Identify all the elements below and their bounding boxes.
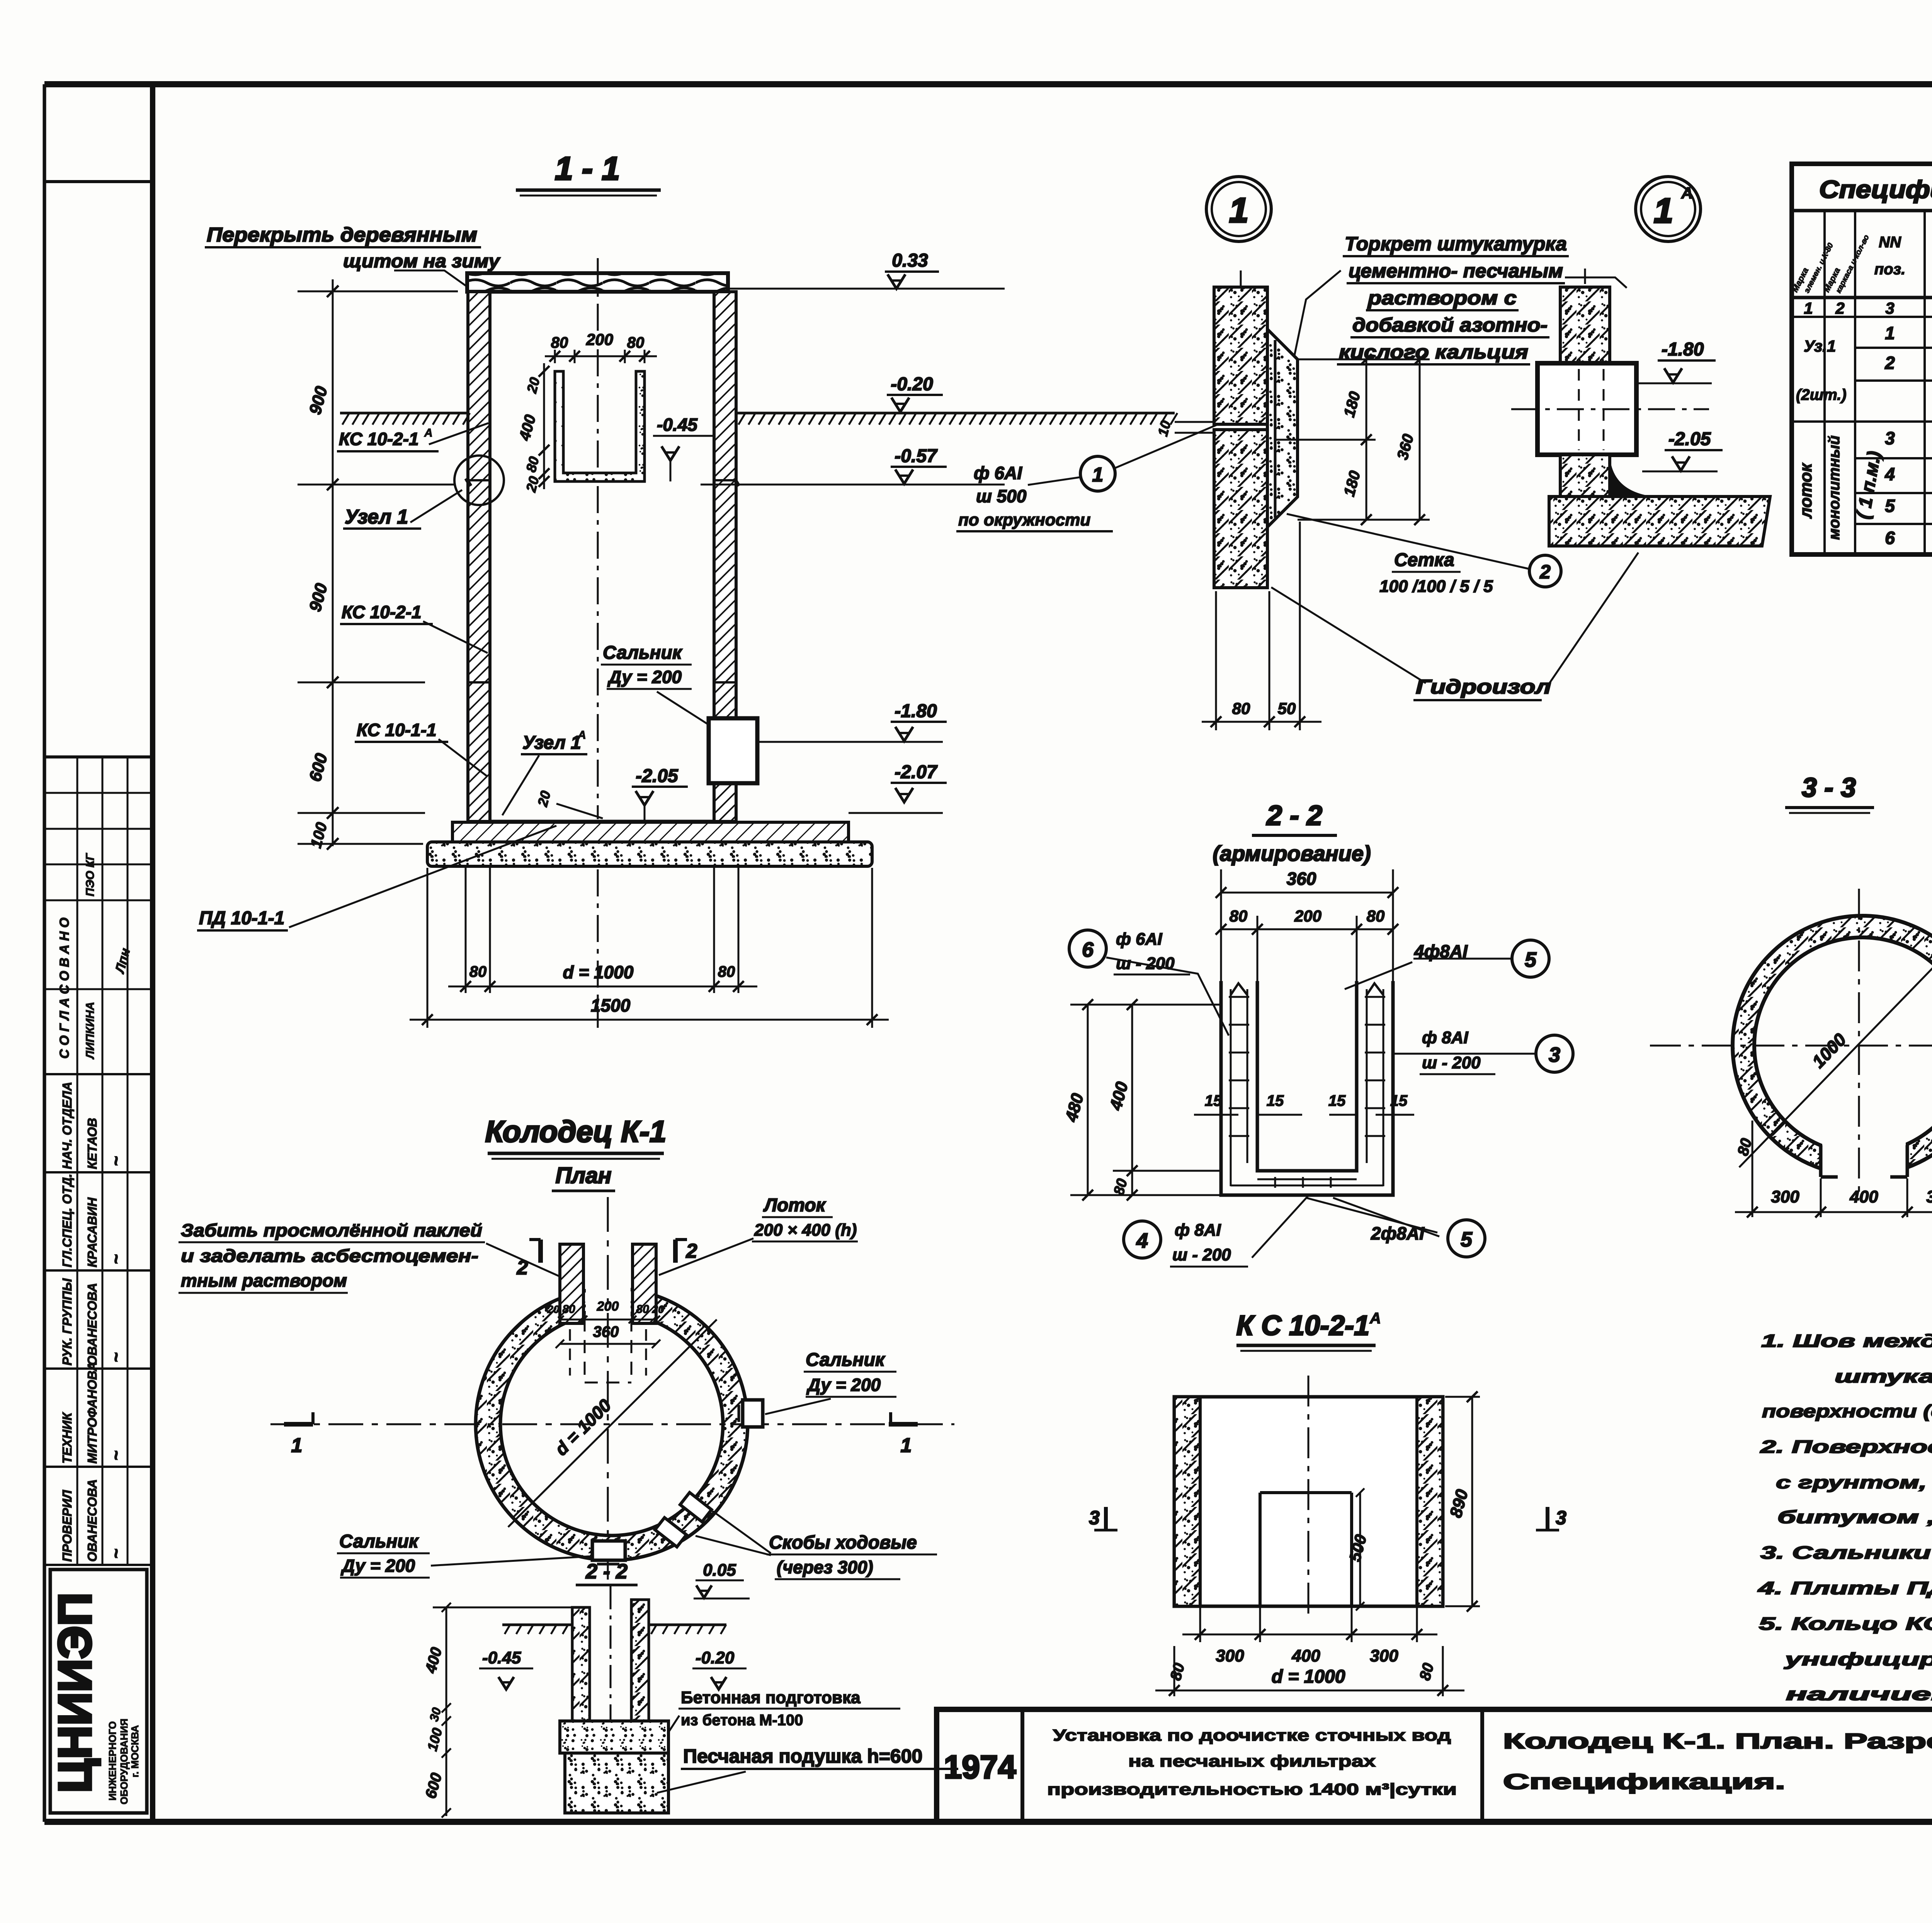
svg-text:80: 80 xyxy=(636,1303,649,1316)
svg-text:Песчаная подушка h=600: Песчаная подушка h=600 xyxy=(683,1745,922,1767)
svg-text:на песчаных фильтрах: на песчаных фильтрах xyxy=(1128,1752,1376,1770)
svg-text:А: А xyxy=(1369,1310,1381,1327)
svg-text:15: 15 xyxy=(1390,1092,1408,1109)
svg-text:5: 5 xyxy=(1525,948,1537,971)
svg-text:ЦНИИЭП: ЦНИИЭП xyxy=(49,1593,101,1793)
border frame xyxy=(43,84,46,1822)
node1 dims 180 180 360 xyxy=(1298,359,1430,361)
channel walls plan xyxy=(560,1244,583,1323)
svg-text:Сальник: Сальник xyxy=(339,1531,419,1552)
bottom slab (hatched) xyxy=(452,822,849,842)
center line xyxy=(597,258,599,819)
svg-text:2: 2 xyxy=(1884,353,1895,373)
svg-text:~: ~ xyxy=(107,1156,126,1166)
svg-text:ф 6АI: ф 6АI xyxy=(1116,930,1162,949)
svg-text:200 × 400 (h): 200 × 400 (h) xyxy=(754,1221,857,1240)
svg-text:Уз.1: Уз.1 xyxy=(1804,337,1836,355)
svg-text:щитом на зиму: щитом на зиму xyxy=(343,251,500,272)
node 1 big circle xyxy=(1206,177,1271,241)
trough (lotok) in section xyxy=(555,371,645,481)
svg-text:-2.07: -2.07 xyxy=(895,762,938,782)
svg-text:Перекрыть деревянным: Перекрыть деревянным xyxy=(207,224,477,246)
svg-text:ф 6АI: ф 6АI xyxy=(974,463,1022,483)
concrete prep pad xyxy=(427,842,872,866)
left dimension chain 900/900/600/100 xyxy=(332,279,334,846)
svg-text:А: А xyxy=(577,729,586,741)
svg-text:3: 3 xyxy=(1089,1507,1100,1529)
svg-text:400: 400 xyxy=(1849,1187,1878,1206)
ring annulus xyxy=(1733,916,1932,1175)
svg-text:-2.05: -2.05 xyxy=(636,766,679,786)
svg-text:1: 1 xyxy=(1885,323,1895,343)
svg-text:200: 200 xyxy=(586,330,613,349)
svg-text:Сетка: Сетка xyxy=(1394,550,1454,570)
svg-text:и заделать асбестоцемен-: и заделать асбестоцемен- xyxy=(181,1246,478,1266)
svg-text:Установка по доочистке сточных: Установка по доочистке сточных вод xyxy=(1053,1726,1451,1744)
svg-text:1: 1 xyxy=(1229,191,1248,230)
svg-text:битумом , разведенным в б: битумом , разведенным в бензине. xyxy=(1777,1507,1932,1527)
svg-text:Сальник: Сальник xyxy=(603,643,683,663)
svg-text:2: 2 xyxy=(686,1240,697,1262)
svg-text:3: 3 xyxy=(1556,1507,1566,1529)
svg-text:1: 1 xyxy=(1804,299,1813,317)
svg-text:3: 3 xyxy=(1549,1043,1560,1066)
svg-text:К С 10-2-1: К С 10-2-1 xyxy=(1236,1310,1369,1341)
salnik box bottom xyxy=(592,1541,625,1560)
svg-text:Торкрет штукатурка: Торкрет штукатурка xyxy=(1345,233,1567,255)
svg-text:ПРОВЕРИЛ: ПРОВЕРИЛ xyxy=(60,1490,74,1562)
svg-text:50: 50 xyxy=(1278,699,1296,718)
svg-text:Колодец К-1: Колодец К-1 xyxy=(485,1114,667,1148)
svg-text:-0.57: -0.57 xyxy=(895,446,938,466)
plaster patch xyxy=(1267,329,1298,527)
dim d=1000 bottom xyxy=(465,868,467,993)
svg-text:ш - 200: ш - 200 xyxy=(1172,1245,1231,1264)
salnik box on right wall xyxy=(709,718,757,783)
section mark 1 left xyxy=(284,1422,313,1427)
floor line inside xyxy=(490,820,714,823)
left dims 480 400 80 xyxy=(1087,1005,1089,1195)
svg-text:1: 1 xyxy=(901,1434,912,1457)
section mark 3 left xyxy=(1104,1507,1108,1530)
svg-text:300: 300 xyxy=(1926,1187,1932,1206)
svg-text:Спецификация.: Спецификация. xyxy=(1503,1769,1785,1794)
notch cut xyxy=(1822,1113,1906,1202)
svg-text:штукатурится по металлическо: штукатурится по металлической сетке с за… xyxy=(1835,1366,1932,1386)
dim 500 xyxy=(1359,1493,1361,1606)
opening lines xyxy=(1259,1493,1262,1606)
svg-text:80: 80 xyxy=(469,963,487,980)
svg-text:1 - 1: 1 - 1 xyxy=(555,150,620,187)
svg-text:2: 2 xyxy=(1539,561,1551,583)
circled 4 xyxy=(1124,1221,1161,1258)
signature table xyxy=(44,1073,153,1075)
svg-text:-0.20: -0.20 xyxy=(891,374,933,395)
bottom dims 300 400 300 xyxy=(1752,1121,1753,1217)
svg-text:200: 200 xyxy=(1294,907,1321,925)
node1 wall strip xyxy=(1214,287,1267,424)
svg-text:15: 15 xyxy=(1328,1092,1346,1109)
svg-text:НАЧ. ОТДЕЛА: НАЧ. ОТДЕЛА xyxy=(60,1082,74,1169)
svg-text:200: 200 xyxy=(597,1299,619,1314)
svg-text:Узел 1: Узел 1 xyxy=(522,733,581,753)
svg-text:КЕТАОВ: КЕТАОВ xyxy=(85,1118,99,1169)
svg-text:d = 1000: d = 1000 xyxy=(563,962,634,982)
diagonal d line xyxy=(1739,927,1932,1167)
circled 6 xyxy=(1069,930,1106,967)
plan centerlines xyxy=(270,1423,954,1425)
svg-text:ф 8АI: ф 8АI xyxy=(1422,1028,1468,1047)
svg-text:по окружности: по окружности xyxy=(958,510,1090,529)
dim d=1000 elevation xyxy=(1173,1646,1175,1696)
svg-text:-0.45: -0.45 xyxy=(657,415,698,435)
dim 1500 bottom xyxy=(427,868,429,1028)
svg-text:ЛИПКИНА: ЛИПКИНА xyxy=(84,1002,97,1059)
svg-text:300: 300 xyxy=(1370,1646,1398,1665)
svg-text:3: 3 xyxy=(1885,299,1894,317)
svg-text:5: 5 xyxy=(1885,496,1895,516)
left stamp strip xyxy=(44,180,153,183)
svg-text:20: 20 xyxy=(547,1303,560,1315)
svg-text:80: 80 xyxy=(627,334,645,351)
svg-text:Сальник: Сальник xyxy=(806,1350,886,1370)
svg-text:(через 300): (через 300) xyxy=(777,1557,873,1577)
svg-text:d = 1000: d = 1000 xyxy=(1272,1667,1345,1687)
svg-text:МИТРОФАНОВА: МИТРОФАНОВА xyxy=(85,1362,99,1464)
svg-text:План: План xyxy=(555,1163,611,1188)
svg-text:ПД 10-1-1: ПД 10-1-1 xyxy=(199,908,284,928)
svg-text:Гидроизол: Гидроизол xyxy=(1416,676,1551,698)
svg-text:1: 1 xyxy=(1092,464,1104,486)
svg-text:1: 1 xyxy=(291,1434,303,1457)
svg-text:Забить просмолённой паклей: Забить просмолённой паклей xyxy=(181,1220,482,1240)
svg-text:20: 20 xyxy=(651,1303,664,1315)
svg-text:80: 80 xyxy=(551,334,568,351)
svg-text:2 - 2: 2 - 2 xyxy=(585,1560,628,1583)
uzel 1 circle xyxy=(454,456,504,505)
svg-text:КС 10-2-1: КС 10-2-1 xyxy=(339,429,419,449)
svg-text:(2шт.): (2шт.) xyxy=(1796,386,1847,403)
svg-text:-1.80: -1.80 xyxy=(895,701,937,721)
wood lid slab xyxy=(467,273,728,292)
trench walls xyxy=(572,1607,590,1721)
svg-text:4: 4 xyxy=(1136,1229,1148,1252)
section mark 3 right xyxy=(1546,1507,1549,1530)
svg-text:ОВАНЕСОВА: ОВАНЕСОВА xyxy=(85,1283,99,1366)
svg-text:ш - 200: ш - 200 xyxy=(1422,1053,1481,1072)
svg-text:РУК. ГРУППЫ: РУК. ГРУППЫ xyxy=(60,1278,74,1366)
title block xyxy=(937,1709,1932,1822)
node1A centerline xyxy=(1511,408,1709,410)
svg-text:цементно- песчаным: цементно- песчаным xyxy=(1349,260,1563,282)
svg-text:поз.: поз. xyxy=(1874,261,1905,278)
svg-text:80: 80 xyxy=(1230,907,1248,925)
ground left/right of trench xyxy=(502,1624,572,1626)
svg-text:300: 300 xyxy=(1216,1646,1244,1665)
svg-text:Лоток: Лоток xyxy=(763,1195,827,1216)
svg-text:из бетона М-100: из бетона М-100 xyxy=(681,1712,803,1729)
svg-text:КС 10-2-1: КС 10-2-1 xyxy=(342,602,422,622)
svg-text:NN: NN xyxy=(1879,234,1901,251)
ground line left xyxy=(340,412,468,415)
svg-text:А: А xyxy=(424,427,433,439)
sand pad block xyxy=(565,1753,668,1813)
svg-text:монолитный: монолитный xyxy=(1826,435,1843,540)
svg-text:раствором с: раствором с xyxy=(1367,287,1517,309)
svg-text:360: 360 xyxy=(1287,869,1316,889)
salnik box right xyxy=(743,1400,763,1427)
svg-text:0.05: 0.05 xyxy=(703,1561,736,1580)
svg-text:Спецификация арматуры на: Спецификация арматуры на 1 элемент xyxy=(1819,175,1932,203)
svg-text:ИНЖЕНЕРНОГО: ИНЖЕНЕРНОГО xyxy=(107,1721,118,1801)
svg-text:0.33: 0.33 xyxy=(892,250,928,271)
svg-text:-1.80: -1.80 xyxy=(1662,339,1704,360)
svg-text:ОБОРУДОВАНИЯ: ОБОРУДОВАНИЯ xyxy=(118,1719,130,1804)
svg-text:1: 1 xyxy=(1654,192,1673,230)
svg-text:добавкой азотно-: добавкой азотно- xyxy=(1352,314,1548,336)
svg-text:производительностью 1400 м³|: производительностью 1400 м³|сутки xyxy=(1047,1780,1457,1799)
svg-text:С О Г Л А С О В А Н О: С О Г Л А С О В А Н О xyxy=(57,918,72,1059)
hidden dashed lines of trough xyxy=(584,1318,586,1383)
section mark 2 right xyxy=(673,1240,678,1263)
svg-text:360: 360 xyxy=(593,1323,619,1340)
svg-text:4: 4 xyxy=(1884,464,1895,484)
svg-text:ТЕХНИК: ТЕХНИК xyxy=(60,1411,74,1464)
lotok dims 80 200 80 xyxy=(554,350,556,363)
svg-text:лоток: лоток xyxy=(1796,463,1815,519)
svg-text:3 - 3: 3 - 3 xyxy=(1802,772,1856,803)
svg-text:6: 6 xyxy=(1885,528,1895,548)
svg-text:с грунтом, обмазать горячим: с грунтом, обмазать горячим битумом за 2… xyxy=(1776,1473,1932,1492)
svg-text:1974: 1974 xyxy=(944,1749,1016,1785)
svg-text:~: ~ xyxy=(107,1451,126,1461)
svg-text:Ду = 200: Ду = 200 xyxy=(806,1375,881,1395)
right wall KC ring (section) xyxy=(714,292,736,821)
svg-text:100 /100 / 5 / 5: 100 /100 / 5 / 5 xyxy=(1379,577,1493,596)
dim 890 right xyxy=(1471,1397,1473,1606)
svg-text:1500: 1500 xyxy=(591,995,631,1015)
left dim chain mini xyxy=(446,1607,447,1816)
svg-text:-0.20: -0.20 xyxy=(696,1648,735,1667)
svg-text:ПЭО КГ: ПЭО КГ xyxy=(84,853,97,896)
CNIIEP stamp box xyxy=(50,1570,147,1813)
svg-text:80: 80 xyxy=(562,1303,575,1316)
svg-text:Скобы ходовые: Скобы ходовые xyxy=(769,1532,917,1553)
top opening cut xyxy=(586,1284,631,1321)
svg-text:А: А xyxy=(1681,184,1693,202)
node1A floor slab xyxy=(1549,497,1770,546)
section mark 1 right xyxy=(889,1422,918,1427)
svg-text:ОВАНЕСОВА: ОВАНЕСОВА xyxy=(85,1479,99,1562)
svg-text:~: ~ xyxy=(107,1352,126,1362)
svg-text:1. Шов между стеновыми: 1. Шов между стеновыми кольцами xyxy=(1761,1331,1932,1351)
dims 300 400 300 below xyxy=(1199,1607,1201,1642)
svg-text:300: 300 xyxy=(1771,1187,1799,1206)
svg-text:400: 400 xyxy=(1291,1646,1320,1665)
svg-text:ГЛ.СПЕЦ. ОТД.: ГЛ.СПЕЦ. ОТД. xyxy=(60,1174,74,1267)
plan ring annulus xyxy=(476,1288,748,1560)
svg-text:15: 15 xyxy=(1267,1092,1284,1109)
svg-text:5: 5 xyxy=(1461,1228,1473,1251)
rebar lines xyxy=(1230,989,1232,1186)
svg-text:КС 10-1-1: КС 10-1-1 xyxy=(357,720,437,740)
svg-text:г. МОСКВА: г. МОСКВА xyxy=(129,1725,141,1777)
svg-text:-2.05: -2.05 xyxy=(1668,429,1711,449)
elevation body xyxy=(1174,1397,1443,1606)
svg-text:наличием отверстия: наличием отверстия xyxy=(1786,1684,1932,1704)
U-shaped wall outline xyxy=(1221,981,1393,1195)
node1A wall strip lower xyxy=(1560,455,1610,497)
svg-text:2 - 2: 2 - 2 xyxy=(1266,800,1322,831)
svg-text:5. Кольцо КС-10-2-1 выполн: 5. Кольцо КС-10-2-1 выполняется в опалуб… xyxy=(1759,1614,1932,1634)
svg-text:6: 6 xyxy=(1082,938,1094,961)
node1 bottom dims 80 50 xyxy=(1215,591,1217,730)
concrete prep block xyxy=(560,1721,668,1753)
skoby (rungs) xyxy=(680,1493,711,1522)
svg-text:ш 500: ш 500 xyxy=(976,486,1027,506)
svg-text:2: 2 xyxy=(1835,299,1844,317)
svg-text:2. Поверхности железобетонны: 2. Поверхности железобетонных колец , со… xyxy=(1760,1437,1932,1457)
svg-text:3. Сальники заложить по: 3. Сальники заложить по месту. xyxy=(1760,1542,1932,1563)
svg-text:Ду = 200: Ду = 200 xyxy=(607,667,682,687)
table: specification armatury xyxy=(1792,164,1932,554)
node1A salnik box xyxy=(1537,363,1636,455)
svg-text:80: 80 xyxy=(1232,699,1250,718)
svg-text:унифицированного кольца марк: унифицированного кольца марки КС10-2-1 и… xyxy=(1784,1649,1932,1669)
node 1A big circle xyxy=(1636,177,1701,241)
centerline elevation xyxy=(1308,1376,1310,1617)
svg-text:80: 80 xyxy=(718,963,735,980)
lotok left dims 20 400 80 20 xyxy=(543,363,545,489)
bitumen fillet xyxy=(1610,462,1654,497)
section mark 2 left xyxy=(538,1240,543,1263)
left wall KC ring (section) xyxy=(468,292,490,821)
svg-text:поверхности (см. Уз. 1): поверхности (см. Уз. 1) xyxy=(1762,1401,1932,1421)
ground line right xyxy=(736,412,1175,415)
svg-text:4. Плиты ПД-10-1-1 укладыва: 4. Плиты ПД-10-1-1 укладывать по песчано… xyxy=(1757,1578,1932,1598)
svg-text:(армирование): (армирование) xyxy=(1213,841,1371,866)
svg-text:3: 3 xyxy=(1885,428,1895,448)
node1A wall strip upper xyxy=(1560,287,1610,364)
svg-text:~: ~ xyxy=(107,1254,126,1264)
svg-text:Колодец К-1. План. Разрез: Колодец К-1. План. Разрезы xyxy=(1503,1729,1932,1753)
svg-text:Узел 1: Узел 1 xyxy=(345,506,408,528)
svg-text:тным раствором: тным раствором xyxy=(181,1270,347,1291)
svg-text:КРАСАВИН: КРАСАВИН xyxy=(85,1197,99,1267)
d=1000 diagonal xyxy=(508,1320,717,1527)
svg-text:Бетонная подготовка: Бетонная подготовка xyxy=(681,1688,861,1707)
svg-text:15: 15 xyxy=(1205,1092,1222,1109)
svg-text:-0.45: -0.45 xyxy=(482,1648,521,1667)
centerlines xyxy=(1650,1045,1932,1047)
svg-text:Ду = 200: Ду = 200 xyxy=(340,1556,415,1576)
svg-text:ф 8АI: ф 8АI xyxy=(1175,1221,1221,1240)
svg-text:~: ~ xyxy=(107,1549,126,1559)
svg-text:80: 80 xyxy=(1367,907,1385,925)
hooks at top xyxy=(1231,983,1247,995)
